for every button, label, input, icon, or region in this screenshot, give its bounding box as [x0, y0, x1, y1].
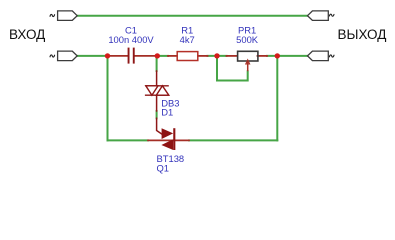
- svg-text:Q1: Q1: [157, 163, 170, 174]
- svg-text:ВЫХОД: ВЫХОД: [338, 27, 387, 42]
- svg-text:D1: D1: [161, 107, 173, 118]
- svg-text:ВХОД: ВХОД: [9, 27, 45, 42]
- svg-text:500K: 500K: [236, 34, 259, 45]
- svg-text:100n 400V: 100n 400V: [108, 34, 154, 45]
- svg-text:4k7: 4k7: [180, 34, 195, 45]
